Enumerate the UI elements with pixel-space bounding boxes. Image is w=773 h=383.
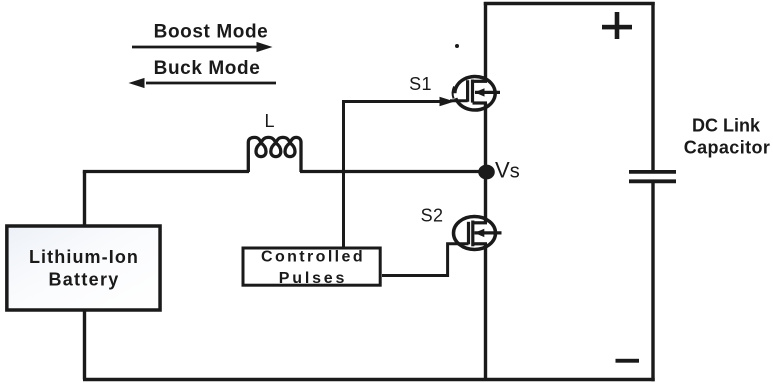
wire: battery bottom lead <box>83 310 86 380</box>
boost mode arrow (right) <box>132 42 273 52</box>
wire: gate drive riser from pulses box to S1 <box>344 102 445 248</box>
label Lithium-Ion Battery <box>29 247 139 290</box>
svg-text:DC Link: DC Link <box>692 116 761 136</box>
svg-text:Lithium-Ion: Lithium-Ion <box>29 247 139 267</box>
buck mode arrow (left) <box>129 78 277 88</box>
wire: right bus lower segment <box>651 181 654 381</box>
wire: S1 gate lead <box>450 99 468 102</box>
transistor S1 (n-MOSFET) <box>453 76 500 110</box>
wire: S1 drain to top rail <box>484 2 487 81</box>
wire: S2 gate lead from pulses box <box>382 244 469 276</box>
wire: bottom rail <box>83 378 655 381</box>
minus terminal label <box>616 359 640 363</box>
svg-text:Buck Mode: Buck Mode <box>154 58 261 79</box>
wire: Vs to S2 drain <box>484 172 487 223</box>
plus terminal label <box>602 12 632 39</box>
battery box <box>7 226 160 310</box>
wire: battery top lead <box>83 172 86 227</box>
svg-text:S2: S2 <box>421 206 444 226</box>
wire: right bus upper segment <box>651 2 654 172</box>
label Controlled Pulses <box>261 249 365 288</box>
svg-text:Controlled: Controlled <box>261 249 365 266</box>
wire: main wire inductor to Vs node <box>300 170 487 173</box>
svg-text:S1: S1 <box>409 74 432 94</box>
svg-text:L: L <box>264 111 274 131</box>
node Vs <box>478 165 495 180</box>
controlled pulses box <box>243 248 380 285</box>
wire: top rail <box>484 2 655 5</box>
svg-text:Vs: Vs <box>495 158 520 183</box>
transistor S2 (n-MOSFET) <box>454 217 502 250</box>
wire: main node wire battery to inductor <box>83 170 249 173</box>
label DC Link Capacitor <box>684 116 771 158</box>
wire: S2 source to bottom rail <box>484 244 487 380</box>
inductor L <box>248 137 301 172</box>
arrowhead into S1 gate <box>440 97 455 107</box>
wire: S1 source to Vs node <box>484 103 487 172</box>
svg-text:Pulses: Pulses <box>279 270 347 287</box>
svg-text:Battery: Battery <box>48 270 119 290</box>
stray dot <box>455 44 459 48</box>
svg-text:Boost Mode: Boost Mode <box>154 22 269 43</box>
svg-text:Capacitor: Capacitor <box>684 138 771 158</box>
capacitor C dc-link plates <box>629 172 676 181</box>
